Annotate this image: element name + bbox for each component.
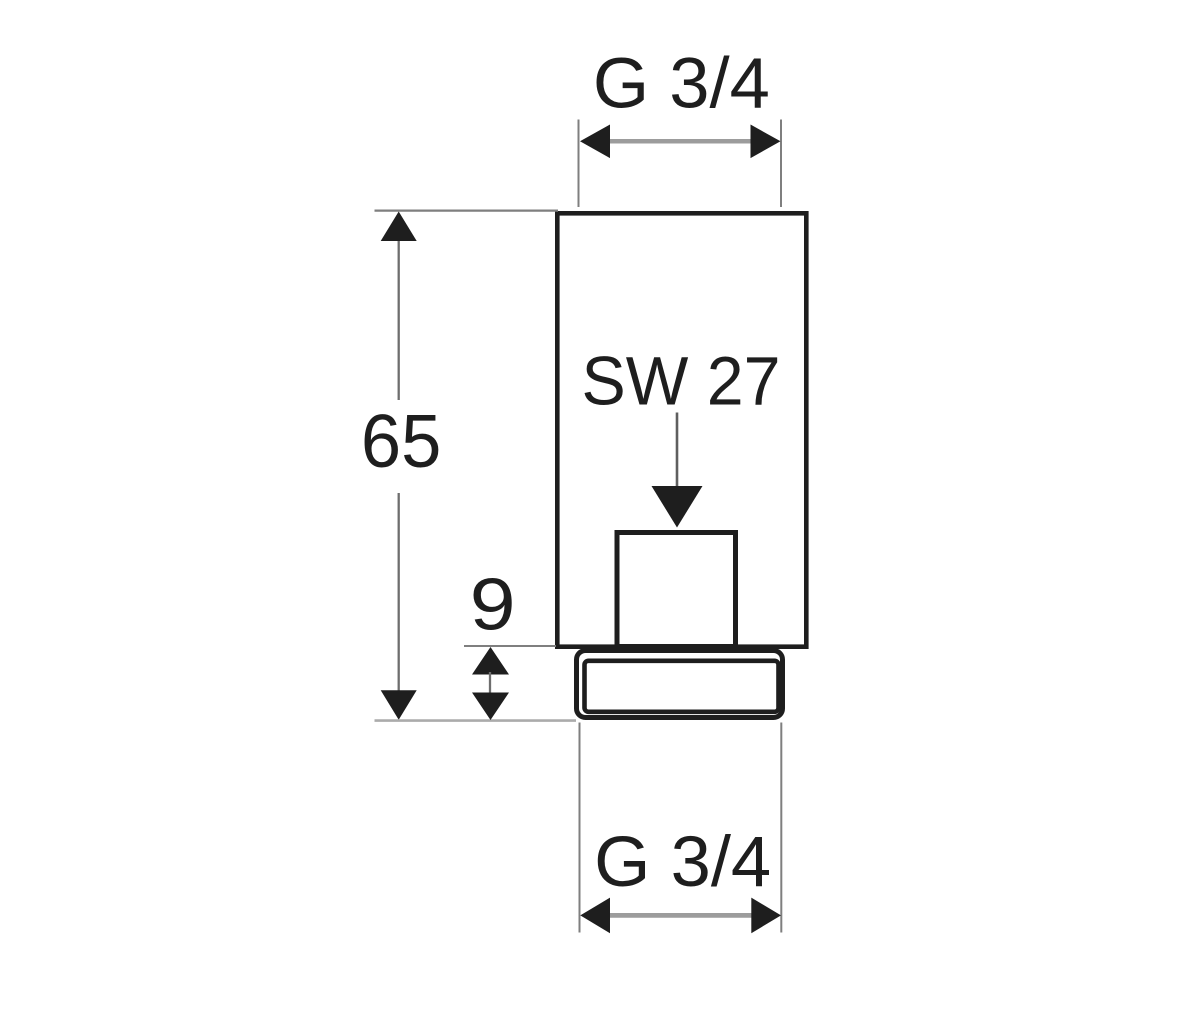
9 dimension extension line — [464, 645, 556, 647]
svg-text:G 3/4: G 3/4 — [594, 823, 771, 902]
65 dimension arrowhead bottom — [381, 690, 417, 720]
svg-text:9: 9 — [470, 565, 516, 646]
svg-text:G 3/4: G 3/4 — [593, 45, 770, 124]
65 dimension top extension line — [375, 210, 559, 212]
bottom dimension arrowhead right — [751, 898, 781, 934]
svg-text:SW 27: SW 27 — [582, 343, 781, 420]
65 dimension line lower segment — [398, 493, 400, 692]
bottom baseline (extension line at thread end) — [375, 719, 577, 722]
thread root contour (inner line) — [585, 661, 779, 712]
top dimension arrowhead left — [580, 125, 610, 159]
hex flat (SW 27 square) — [617, 533, 736, 647]
top dimension extension line right — [780, 120, 782, 208]
body outline (fitting housing) — [557, 213, 806, 646]
thread outer contour (G 3/4 spigot) — [577, 651, 783, 718]
SW 27 leader line — [676, 413, 679, 489]
top dimension line — [600, 139, 760, 144]
SW 27 leader arrowhead — [652, 486, 703, 528]
top dimension extension line left — [578, 120, 580, 208]
bottom dimension extension line left — [579, 723, 581, 933]
9 dimension arrowhead down — [472, 693, 509, 721]
bottom dimension line — [600, 913, 760, 918]
top dimension arrowhead right — [751, 125, 781, 159]
bottom dimension arrowhead left — [580, 898, 610, 934]
9 dimension connecting line — [489, 672, 491, 694]
svg-text:65: 65 — [361, 399, 442, 483]
65 dimension arrowhead top — [381, 212, 417, 242]
65 dimension line upper segment — [398, 238, 400, 400]
bottom dimension extension line right — [780, 723, 782, 933]
9 dimension arrowhead up — [472, 647, 509, 675]
